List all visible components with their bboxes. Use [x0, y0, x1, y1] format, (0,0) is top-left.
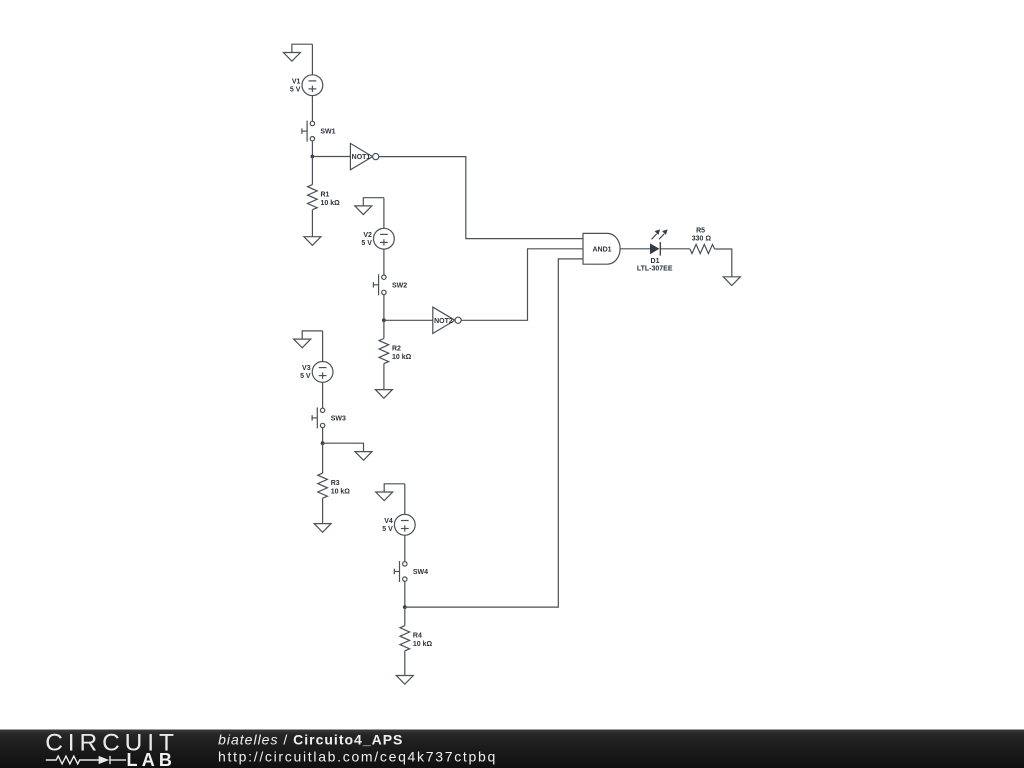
resistor R3 10k [318, 473, 351, 498]
wire [384, 319, 433, 321]
inverter NOT2 [433, 307, 461, 333]
svg-text:5 V: 5 V [361, 240, 372, 247]
ground (V2 top) [355, 198, 384, 215]
wire [311, 96, 313, 122]
ground (V4 top) [376, 484, 405, 501]
wire [404, 581, 406, 607]
wire [311, 157, 313, 185]
ground (R2 bottom) [375, 390, 392, 399]
svg-text:V4: V4 [384, 518, 393, 525]
svg-text:R3: R3 [331, 480, 340, 487]
svg-text:V2: V2 [363, 232, 372, 239]
switch SW2 [373, 274, 407, 295]
resistor R4 10k [400, 626, 433, 651]
ground (R1 bottom) [304, 237, 321, 246]
wire [322, 428, 324, 444]
wire J4 to AND1 [405, 259, 583, 607]
wire [322, 382, 324, 408]
voltage source V1 5V [290, 75, 323, 96]
ground (R4 bottom) [396, 676, 413, 685]
wire [322, 331, 324, 362]
wire [311, 141, 313, 157]
wire [312, 156, 350, 158]
wire [715, 249, 732, 277]
svg-text:SW3: SW3 [331, 415, 346, 422]
switch SW1 [302, 121, 336, 142]
svg-text:http://circuitlab.com/ceq4k737: http://circuitlab.com/ceq4k737ctpbq [218, 748, 497, 764]
inverter NOT1 [350, 143, 378, 169]
svg-text:R2: R2 [392, 346, 401, 353]
wire [383, 320, 385, 338]
svg-text:LTL-307EE: LTL-307EE [637, 266, 673, 273]
node junction J4 [403, 605, 407, 609]
wire [322, 498, 324, 523]
wire [404, 535, 406, 562]
switch SW4 [394, 561, 428, 582]
svg-text:LAB: LAB [127, 750, 177, 768]
svg-text:330 Ω: 330 Ω [692, 235, 712, 242]
node junction J2 [382, 318, 386, 322]
svg-text:SW2: SW2 [392, 282, 407, 289]
resistor R1 10k [308, 185, 341, 210]
ground (right of SW3) [355, 452, 372, 461]
svg-text:10 kΩ: 10 kΩ [321, 200, 341, 207]
ground (R3 bottom) [314, 524, 331, 533]
svg-text:V3: V3 [302, 365, 311, 372]
node junction J3 [321, 441, 325, 445]
wire [404, 484, 406, 515]
wire NOT1 output to AND1 [379, 157, 583, 239]
node junction J1 [311, 155, 315, 159]
wire [322, 443, 324, 473]
svg-text:R4: R4 [413, 633, 422, 640]
resistor R5 330ohm [690, 228, 715, 254]
voltage source V4 5V [382, 514, 415, 535]
wire [383, 295, 385, 321]
voltage source V3 5V [300, 362, 333, 383]
wire [311, 44, 313, 75]
svg-text:R1: R1 [321, 192, 330, 199]
CircuitLab logo resistor-diode squiggle [46, 756, 126, 764]
svg-text:biatelles / Circuito4_APS: biatelles / Circuito4_APS [218, 731, 403, 747]
switch SW3 [312, 407, 346, 428]
wire [383, 249, 385, 275]
ground (V3 top) [294, 331, 323, 348]
wire [311, 210, 313, 237]
svg-text:SW1: SW1 [320, 129, 335, 136]
wire [383, 198, 385, 229]
svg-text:AND1: AND1 [592, 246, 611, 253]
svg-text:D1: D1 [651, 258, 660, 265]
LED D1 LTL-307EE [637, 229, 673, 272]
wire [661, 248, 690, 250]
svg-text:SW4: SW4 [413, 569, 428, 576]
svg-text:NOT2: NOT2 [434, 318, 453, 325]
ground (V1 top) [283, 44, 312, 61]
resistor R2 10k [379, 339, 412, 364]
wire J3 to ground [323, 443, 364, 451]
wire [383, 364, 385, 390]
wire AND1 output [620, 248, 650, 250]
svg-text:5 V: 5 V [382, 526, 393, 533]
wire NOT2 output to AND1 [461, 249, 583, 320]
wire [404, 651, 406, 676]
svg-text:5 V: 5 V [300, 373, 311, 380]
AND gate AND1 [583, 233, 620, 264]
svg-text:R5: R5 [696, 228, 705, 235]
svg-text:NOT1: NOT1 [352, 154, 371, 161]
svg-text:V1: V1 [292, 78, 301, 85]
svg-text:10 kΩ: 10 kΩ [413, 641, 433, 648]
svg-text:10 kΩ: 10 kΩ [331, 489, 351, 496]
ground (R5 bottom) [723, 277, 740, 286]
voltage source V2 5V [361, 228, 394, 249]
svg-text:10 kΩ: 10 kΩ [392, 354, 412, 361]
wire [404, 607, 406, 626]
svg-text:5 V: 5 V [290, 86, 301, 93]
